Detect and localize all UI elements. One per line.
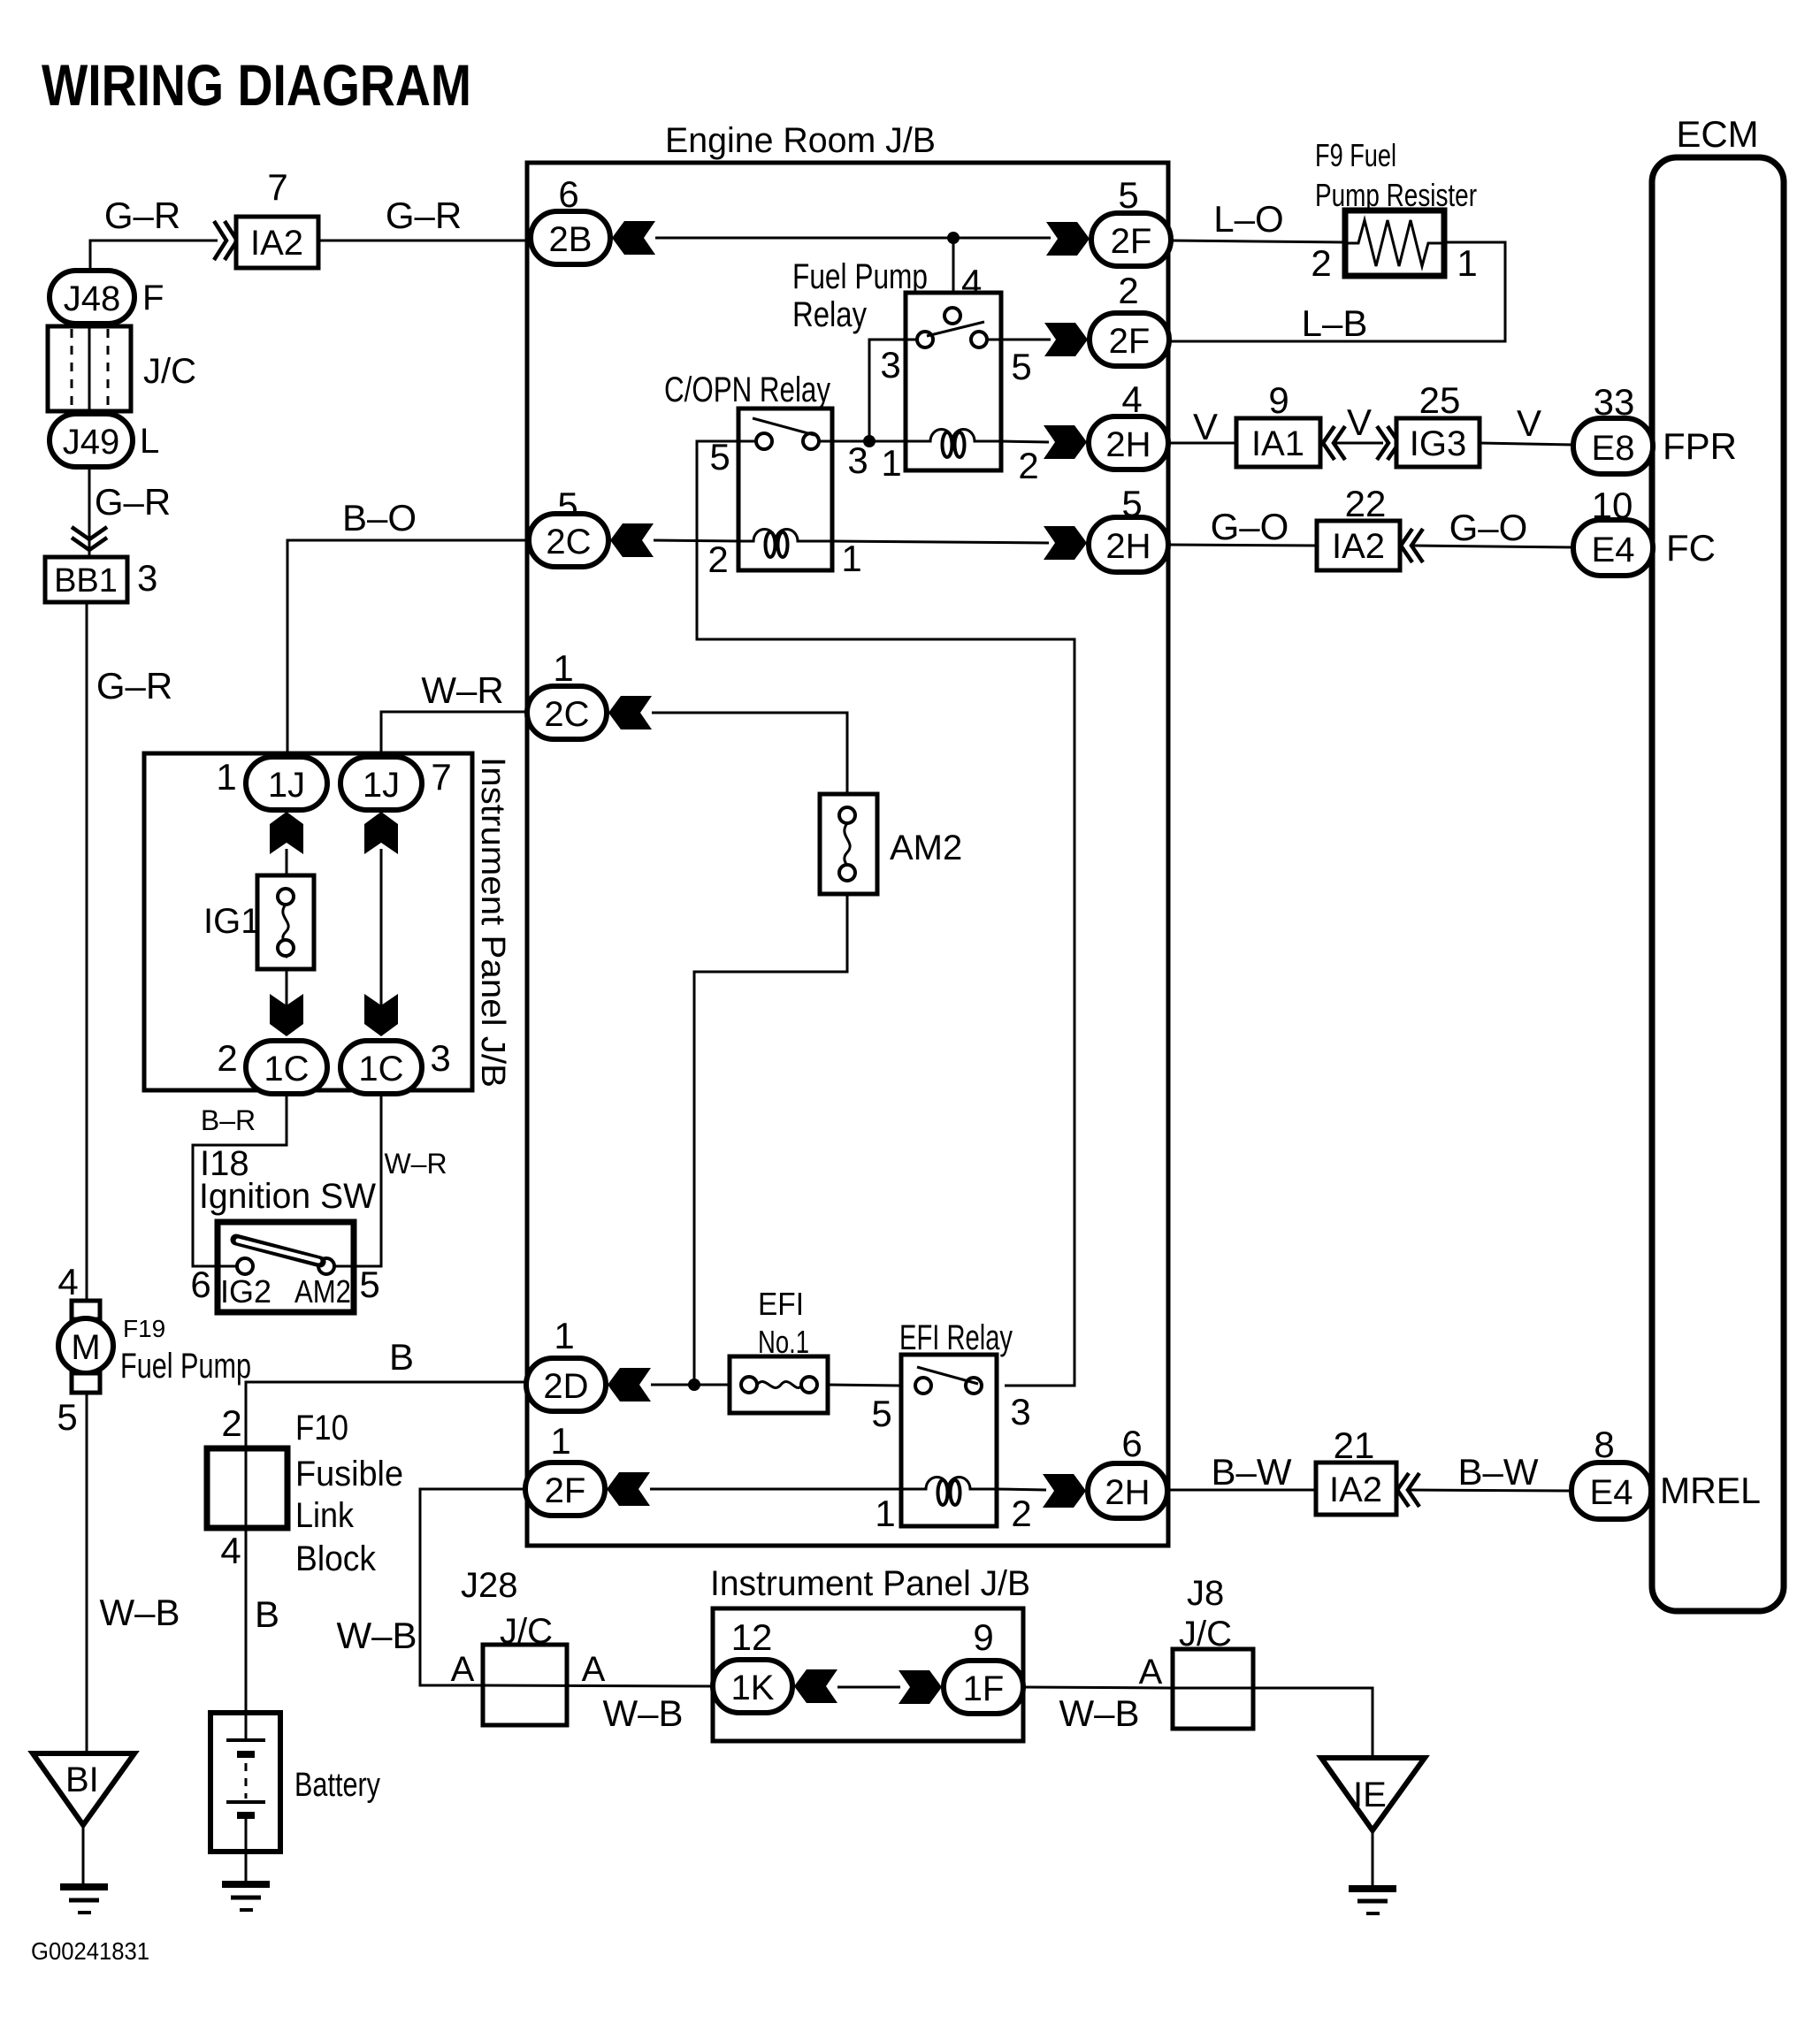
svg-text:AM2: AM2 — [890, 829, 962, 867]
junction connector J28 box — [483, 1645, 567, 1725]
svg-text:1: 1 — [875, 1493, 895, 1534]
svg-text:12: 12 — [731, 1616, 773, 1658]
connector BB1 box — [45, 557, 127, 602]
svg-text:1: 1 — [1457, 242, 1477, 284]
svg-text:1: 1 — [550, 1420, 570, 1462]
wire FP pin3 to tap — [869, 340, 917, 441]
junction connector J8 box — [1173, 1649, 1253, 1729]
ignition switch contacts — [237, 1258, 253, 1274]
svg-text:4: 4 — [1121, 378, 1142, 420]
svg-text:2: 2 — [217, 1037, 237, 1079]
connector IA2 pin22 box — [1317, 521, 1400, 570]
ignition switch I18 box — [218, 1222, 354, 1312]
connector oval 1J pin1 — [246, 757, 327, 810]
svg-text:B–W: B–W — [1211, 1451, 1291, 1493]
svg-text:MREL: MREL — [1660, 1470, 1761, 1511]
relay EFI box — [901, 1355, 997, 1526]
svg-text:3: 3 — [847, 439, 868, 481]
resistor zigzag — [1345, 220, 1444, 266]
svg-text:B: B — [389, 1336, 414, 1378]
wire EFI relay coil to 2F1 arrow — [650, 1488, 901, 1491]
svg-text:6: 6 — [1121, 1423, 1142, 1464]
svg-text:1C: 1C — [264, 1050, 309, 1088]
svg-text:G–R: G–R — [104, 195, 180, 236]
svg-text:2H: 2H — [1105, 425, 1151, 464]
svg-text:Link: Link — [295, 1496, 355, 1535]
svg-text:BB1: BB1 — [54, 562, 118, 600]
junction dot pin3 tap — [863, 435, 876, 447]
connector oval E4 MREL — [1571, 1463, 1651, 1519]
motor F19 fuel pump — [72, 1301, 100, 1319]
svg-text:WIRING DIAGRAM: WIRING DIAGRAM — [42, 52, 471, 118]
connector IG3 box — [1396, 418, 1480, 467]
chevron into IA2 — [214, 221, 237, 260]
svg-text:W–R: W–R — [421, 669, 503, 711]
svg-text:Relay: Relay — [792, 295, 867, 334]
junction J48 oval — [50, 271, 134, 324]
fuse EFI No.1 box — [730, 1356, 828, 1413]
arrow into 2H5 — [1044, 526, 1087, 560]
svg-text:L: L — [140, 422, 159, 461]
svg-text:G–R: G–R — [386, 195, 462, 236]
EFI relay switch contacts — [915, 1378, 931, 1394]
wire IA2 to E4 G-O — [1412, 546, 1573, 547]
wire 2B to 2F5 row — [655, 237, 1051, 240]
svg-text:W–R: W–R — [384, 1148, 447, 1180]
svg-text:6: 6 — [558, 173, 578, 215]
svg-text:B–R: B–R — [201, 1104, 256, 1136]
svg-text:Instrument Panel J/B: Instrument Panel J/B — [474, 757, 511, 1088]
wire J49 to BB1 — [88, 467, 91, 557]
svg-text:1F: 1F — [963, 1669, 1005, 1708]
connector oval 2F pin5 — [1091, 213, 1171, 266]
svg-text:J/C: J/C — [143, 352, 196, 391]
svg-text:E8: E8 — [1592, 429, 1635, 468]
svg-text:2F: 2F — [1111, 222, 1152, 261]
svg-text:B: B — [255, 1593, 279, 1635]
wire 1J1 arrow to IG1 — [286, 849, 288, 875]
wire between arrows — [837, 1686, 900, 1689]
ground triangle IE — [1321, 1758, 1425, 1830]
svg-text:FPR: FPR — [1663, 425, 1737, 467]
svg-text:E4: E4 — [1590, 1473, 1633, 1512]
wire J8 to IE — [1173, 1688, 1373, 1758]
wire through J/C — [88, 322, 91, 416]
svg-text:EFI: EFI — [758, 1286, 804, 1322]
connector oval 2H pin5 — [1089, 517, 1168, 572]
svg-text:EFI Relay: EFI Relay — [899, 1318, 1013, 1357]
wire W-R from 2C1 down to 1J7 — [381, 712, 529, 759]
svg-text:V: V — [1517, 402, 1541, 444]
svg-text:5: 5 — [1011, 346, 1031, 387]
wire between chevrons — [1334, 442, 1383, 445]
arrow into 1K — [794, 1669, 837, 1703]
svg-text:4: 4 — [57, 1261, 78, 1302]
svg-text:2: 2 — [1118, 270, 1138, 311]
svg-text:1K: 1K — [731, 1669, 775, 1707]
svg-text:2F: 2F — [545, 1471, 586, 1510]
junction J49 oval — [50, 414, 133, 467]
wire IG3 to E8 V — [1480, 443, 1573, 445]
svg-text:A: A — [1139, 1653, 1163, 1692]
svg-text:W–B: W–B — [336, 1615, 417, 1656]
wire 1C3 to ignition SW W-R — [334, 1094, 381, 1266]
chevron after IA2 22 — [1401, 529, 1423, 562]
svg-text:J8: J8 — [1187, 1574, 1224, 1613]
arrow into 2F2 — [1044, 323, 1088, 356]
connector IA1 box — [1236, 418, 1320, 467]
arrow into 2H6 pointing right — [1043, 1474, 1086, 1508]
svg-text:Fuel Pump: Fuel Pump — [120, 1347, 251, 1386]
svg-text:IG1: IG1 — [203, 902, 260, 941]
svg-text:22: 22 — [1345, 483, 1387, 524]
svg-text:FC: FC — [1666, 527, 1716, 569]
connector oval 2H pin4 — [1089, 416, 1168, 470]
svg-text:Ignition SW: Ignition SW — [199, 1177, 376, 1216]
FP relay pin4 contact — [944, 308, 960, 324]
J/C dashed separators — [71, 329, 73, 409]
svg-text:9: 9 — [973, 1616, 993, 1658]
svg-text:2B: 2B — [549, 220, 593, 259]
svg-text:4: 4 — [220, 1530, 241, 1571]
svg-text:M: M — [71, 1328, 100, 1367]
svg-text:IA2: IA2 — [250, 224, 303, 263]
wire FP pin5 to 2F2 — [987, 339, 1051, 341]
chevron into BB1 — [72, 527, 107, 550]
svg-text:2C: 2C — [544, 695, 589, 734]
connector oval 2H pin6 — [1088, 1463, 1167, 1518]
wire IE to ground — [1372, 1827, 1374, 1889]
svg-text:3: 3 — [137, 557, 157, 599]
svg-text:G–O: G–O — [1211, 506, 1289, 547]
svg-text:5: 5 — [871, 1393, 891, 1434]
svg-text:2: 2 — [1011, 1493, 1031, 1534]
relay C/OPN box — [738, 409, 832, 570]
wire C/OPN pin5 long path to EFI relay pin3 — [738, 440, 756, 443]
svg-text:A: A — [582, 1650, 606, 1689]
svg-text:B–O: B–O — [342, 497, 417, 538]
wire EFI coil pin2 to 2H6 — [997, 1489, 1046, 1490]
chevron after IA2 21 — [1397, 1473, 1419, 1507]
svg-text:1J: 1J — [268, 766, 305, 805]
ECM box — [1652, 157, 1784, 1611]
wire C/OPN pin3 to FP coil pin1 — [819, 440, 906, 443]
wire BB1 to fuel pump G-R — [86, 602, 88, 1301]
svg-text:W–B: W–B — [99, 1592, 180, 1633]
svg-text:5: 5 — [359, 1264, 379, 1305]
svg-text:3: 3 — [1010, 1391, 1030, 1432]
wire arrow to EFI No1 fuse — [651, 1384, 730, 1386]
junction dot on 2D row — [688, 1379, 700, 1391]
wire J48 to IA2 connector G-R — [90, 241, 218, 274]
arrow into 2C1 — [608, 696, 652, 729]
connector oval 1K — [713, 1660, 792, 1713]
svg-text:AM2: AM2 — [294, 1273, 351, 1310]
svg-text:V: V — [1347, 401, 1372, 443]
svg-text:2: 2 — [1311, 242, 1331, 284]
svg-text:1: 1 — [216, 756, 236, 798]
Instrument Panel J/B box lower — [713, 1608, 1023, 1741]
svg-text:1: 1 — [841, 538, 861, 579]
ground symbol under BI — [60, 1883, 108, 1890]
arrow into 1F — [899, 1670, 942, 1704]
svg-text:IA2: IA2 — [1332, 527, 1385, 566]
connector oval 2F pin2 — [1090, 313, 1169, 366]
svg-text:G–R: G–R — [96, 665, 172, 706]
fuse AM2 — [820, 794, 877, 894]
svg-text:IE: IE — [1353, 1776, 1387, 1814]
arrow into 2H4 — [1044, 425, 1087, 459]
wire battery B riser — [246, 1382, 529, 1713]
wire 1F to J8 — [1023, 1687, 1173, 1688]
connector IA2 box — [236, 217, 318, 268]
svg-text:1C: 1C — [358, 1050, 403, 1088]
wire dot down to fuel pump relay pin4 — [952, 238, 955, 308]
wire fuse to EFI relay pin5 — [828, 1385, 901, 1386]
svg-text:Fusible: Fusible — [295, 1455, 403, 1493]
FP relay coil — [906, 429, 1001, 441]
C/OPN relay coil — [740, 529, 832, 541]
svg-text:G–R: G–R — [95, 481, 171, 523]
svg-text:Battery: Battery — [294, 1767, 380, 1804]
svg-text:ECM: ECM — [1676, 113, 1758, 155]
C/OPN switch contacts — [756, 433, 772, 449]
svg-text:F19: F19 — [123, 1315, 165, 1342]
svg-text:6: 6 — [190, 1264, 210, 1305]
svg-text:1J: 1J — [363, 766, 400, 805]
junction connector J/C box — [48, 326, 131, 411]
ignition switch lever — [236, 1240, 320, 1262]
svg-text:2: 2 — [1018, 445, 1038, 486]
EFI relay coil — [901, 1477, 997, 1489]
wire B-O from 2C5 down to 1J1 — [287, 540, 529, 759]
wire 2H6 to IA2 B-W — [1167, 1489, 1316, 1492]
wire AM2 fuse down to 2D row — [694, 894, 847, 1385]
arrow up into 1J1 — [270, 812, 303, 854]
svg-text:J49: J49 — [63, 423, 120, 462]
arrow into 2F1 — [607, 1472, 650, 1506]
connector oval 1C pin3 — [340, 1041, 422, 1094]
connector IA2 pin21 box — [1316, 1463, 1396, 1515]
svg-text:W–B: W–B — [1059, 1692, 1139, 1734]
svg-text:V: V — [1193, 406, 1218, 447]
wire 2C1 to AM2 fuse — [652, 713, 847, 794]
svg-text:G–O: G–O — [1449, 507, 1528, 548]
fuse IG1 — [257, 875, 314, 969]
svg-text:BI: BI — [65, 1760, 99, 1799]
svg-text:L–O: L–O — [1213, 198, 1283, 240]
connector oval E4 FC — [1573, 520, 1653, 576]
svg-text:Fuel Pump: Fuel Pump — [792, 257, 928, 296]
wire arrow to C/OPN coil pin2 — [654, 540, 740, 541]
wire 1C2 to ignition SW B-R — [193, 1094, 287, 1266]
wire IG1 to 1C2 arrow — [286, 969, 288, 1035]
wire 1J7 to 1C3 — [380, 849, 383, 1035]
wire 2F5 to resistor L-O — [1171, 241, 1345, 242]
arrow down into 1C3 — [364, 994, 398, 1036]
svg-text:F9 Fuel: F9 Fuel — [1315, 137, 1396, 173]
svg-text:2H: 2H — [1105, 527, 1151, 566]
wire BI to ground — [82, 1822, 85, 1885]
svg-text:IA1: IA1 — [1251, 424, 1304, 463]
connector oval 1F — [944, 1661, 1023, 1714]
svg-text:J48: J48 — [64, 279, 121, 318]
wire resistor to 2F2 L-B — [1171, 242, 1505, 341]
wire through J28 — [483, 1685, 713, 1686]
svg-text:IG3: IG3 — [1410, 424, 1466, 463]
arrow into 2F5 — [1046, 222, 1090, 256]
chevrons IA1 to IG3 — [1323, 426, 1345, 460]
svg-text:L–B: L–B — [1302, 302, 1368, 344]
svg-text:Engine Room J/B: Engine Room J/B — [665, 121, 936, 160]
svg-text:3: 3 — [880, 344, 900, 386]
svg-text:3: 3 — [430, 1037, 450, 1079]
svg-text:2C: 2C — [546, 523, 591, 561]
svg-text:7: 7 — [267, 166, 287, 208]
svg-text:A: A — [451, 1650, 475, 1689]
wire 2H4 to IA1 V — [1168, 442, 1236, 445]
svg-text:2H: 2H — [1105, 1473, 1150, 1512]
arrow into 2B — [612, 221, 655, 255]
svg-text:1: 1 — [553, 647, 573, 689]
svg-text:IA2: IA2 — [1329, 1470, 1382, 1509]
fusible link F10 box — [207, 1448, 287, 1528]
svg-text:9: 9 — [1268, 379, 1289, 421]
svg-text:W–B: W–B — [602, 1692, 683, 1734]
svg-text:2F: 2F — [1109, 322, 1151, 361]
svg-text:Instrument Panel J/B: Instrument Panel J/B — [710, 1564, 1030, 1603]
svg-text:5: 5 — [1118, 174, 1138, 216]
wire IA2 to 2B G-R — [318, 240, 531, 242]
connector oval E8 FPR — [1573, 418, 1653, 474]
arrow into 2C5 — [610, 523, 654, 557]
wire fuel pump to BI ground W-B — [86, 1393, 88, 1753]
svg-text:21: 21 — [1334, 1424, 1375, 1466]
wire FP coil pin2 to 2H4 — [1001, 441, 1049, 442]
resistor F9 box — [1345, 210, 1444, 276]
svg-text:C/OPN Relay: C/OPN Relay — [664, 370, 830, 409]
svg-text:B–W: B–W — [1457, 1451, 1538, 1493]
wire 2H5 to IA2 G-O — [1168, 545, 1317, 546]
ground symbol under battery — [222, 1881, 270, 1888]
wire IA2 to E4 B-W — [1409, 1490, 1571, 1491]
relay fuel pump box — [906, 293, 1001, 470]
svg-text:J28: J28 — [461, 1566, 518, 1605]
wire C/OPN coil pin1 to 2H5 — [832, 541, 1049, 543]
battery cell symbol — [245, 1713, 248, 1738]
EFI relay blade — [917, 1367, 978, 1384]
svg-text:F10: F10 — [295, 1409, 348, 1447]
wire 2F1 left to J28 W-B — [420, 1489, 527, 1685]
junction dot fuel pump relay feed — [947, 232, 960, 244]
arrow up into 1J7 — [364, 812, 398, 854]
svg-text:2: 2 — [221, 1402, 241, 1444]
svg-text:Block: Block — [295, 1539, 377, 1578]
svg-text:7: 7 — [431, 756, 451, 798]
arrow into 2D — [608, 1368, 651, 1402]
svg-text:1: 1 — [554, 1315, 574, 1356]
svg-text:1: 1 — [881, 442, 901, 484]
ground triangle BI — [33, 1753, 134, 1825]
FP relay switch contacts — [917, 332, 933, 348]
ground symbol under IE — [1349, 1885, 1396, 1892]
arrow down into 1C2 — [270, 994, 303, 1036]
svg-text:25: 25 — [1419, 379, 1461, 421]
connector oval 1J pin7 — [340, 757, 422, 810]
svg-text:IG2: IG2 — [220, 1273, 271, 1310]
FP relay blade — [927, 322, 984, 336]
svg-text:2D: 2D — [543, 1367, 588, 1406]
battery box — [210, 1713, 280, 1852]
C/OPN blade — [753, 418, 814, 435]
svg-text:2: 2 — [707, 538, 728, 580]
svg-text:E4: E4 — [1592, 531, 1635, 569]
Engine Room J/B box — [527, 163, 1168, 1546]
svg-text:8: 8 — [1594, 1424, 1614, 1465]
Instrument Panel J/B box upper — [144, 753, 472, 1090]
connector oval 1C pin2 — [246, 1041, 327, 1094]
svg-text:5: 5 — [57, 1396, 77, 1438]
svg-text:F: F — [142, 279, 164, 317]
svg-text:G00241831: G00241831 — [31, 1937, 149, 1965]
